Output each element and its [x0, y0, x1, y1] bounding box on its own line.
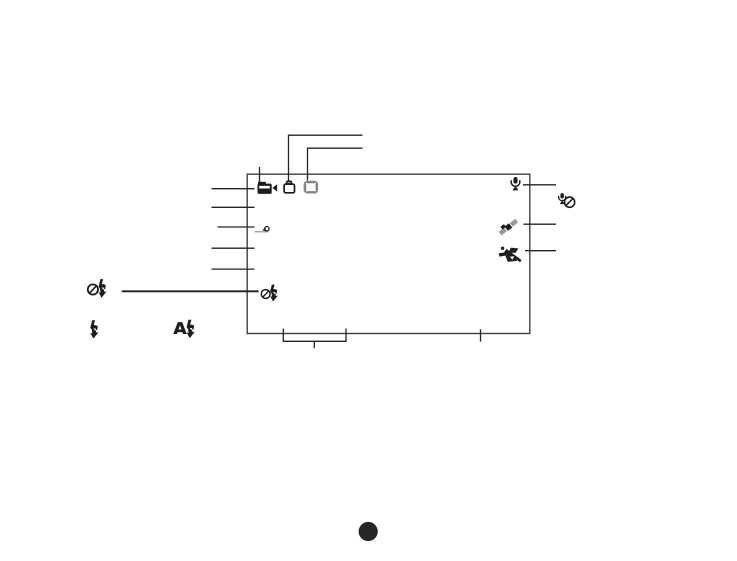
right callout line: microphone — [523, 184, 556, 186]
icon: auto flash bolt — [187, 320, 195, 338]
icon: flash off (inside screen) — [261, 285, 278, 302]
left callout tick 2 — [212, 206, 255, 208]
bottom single tick — [480, 329, 482, 341]
icon: flash off (far left) — [88, 279, 107, 298]
left callout tick 1 — [212, 188, 255, 190]
icon: spot focus (line with ring) — [255, 227, 269, 233]
icon: camcorder (movie mode) — [258, 182, 278, 194]
LCD screen outline — [247, 174, 530, 333]
icon: auto flash label "A" — [173, 322, 186, 334]
right callout line: runner icon — [525, 250, 556, 252]
left callout tick 3 — [218, 226, 255, 228]
callout tick: movie mode icon (vertical through top edge) — [259, 167, 261, 186]
icon: recording format (tape cassette) — [284, 181, 294, 193]
icon: image size frame — [304, 181, 318, 193]
right callout line: satellite icon — [523, 223, 556, 225]
icon: microphone — [511, 177, 520, 190]
callout elbow: image size icon — [308, 148, 363, 180]
callout elbow: recording format icon — [289, 135, 363, 180]
page number dot — [359, 522, 378, 541]
icon: microphone muted (outside right) — [559, 193, 575, 207]
bottom bracket — [283, 329, 346, 349]
icon: satellite — [497, 217, 518, 236]
left callout tick 4 — [212, 247, 255, 249]
flash-off long callout line — [122, 290, 259, 292]
left callout tick 5 — [212, 268, 255, 270]
icon: runner with slash — [499, 247, 521, 262]
icon: flash on bolt — [90, 320, 98, 338]
